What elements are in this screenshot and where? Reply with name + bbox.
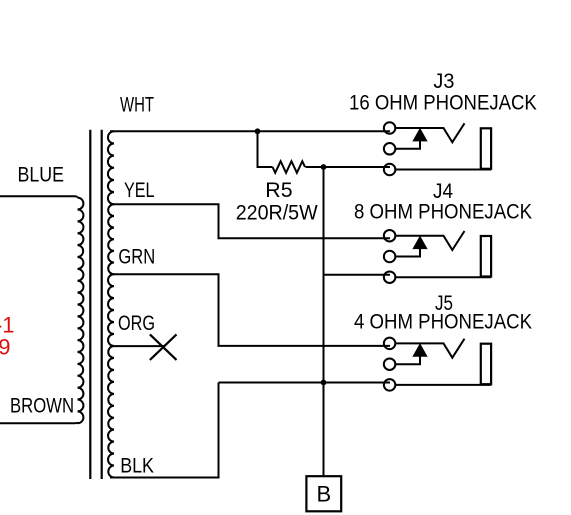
- junction node R5/bus: [321, 164, 327, 170]
- jack J5 terminal circles (tip/switch/sleeve): [384, 338, 396, 391]
- svg-text:B: B: [316, 482, 331, 507]
- jack J3 switch contact wire from middle terminal: [395, 140, 420, 148]
- transformer T primary winding (left coil): [78, 198, 84, 424]
- jack J4 sleeve/body rectangle: [481, 236, 491, 277]
- svg-text:220R/5W: 220R/5W: [236, 202, 318, 225]
- svg-text:R5: R5: [265, 179, 292, 202]
- jack J3 switch arrow (filled): [413, 129, 427, 141]
- svg-text:ORG: ORG: [118, 312, 155, 335]
- no-connect X on ORG tap: [150, 334, 177, 360]
- svg-text:4 OHM PHONEJACK: 4 OHM PHONEJACK: [354, 311, 532, 334]
- wire YEL tap to J4 tip: [110, 204, 390, 238]
- svg-text:BLUE: BLUE: [18, 164, 65, 187]
- svg-text:BROWN: BROWN: [10, 395, 74, 418]
- transformer core line 1: [89, 130, 91, 479]
- wire R5 output to bus: [306, 166, 391, 168]
- terminal B box: [306, 476, 341, 511]
- wire BLK tap up to ground bus row: [110, 383, 219, 478]
- jack J3 sleeve/body rectangle: [481, 128, 491, 169]
- jack J5 sleeve/body rectangle: [481, 344, 491, 385]
- wire ORG tap (unused stub): [110, 345, 165, 347]
- jack J4 terminal circles (tip/switch/sleeve): [384, 230, 396, 283]
- jack J4 tip contact line with V notch: [395, 231, 464, 250]
- transformer secondary winding (right coil, taps WHT/YEL/GRN/ORG/BLK): [108, 131, 114, 477]
- svg-text:J3: J3: [433, 70, 454, 93]
- svg-text:WHT: WHT: [120, 94, 154, 117]
- svg-text:16 OHM PHONEJACK: 16 OHM PHONEJACK: [349, 91, 537, 114]
- wire R5 drop from WHT node: [258, 131, 273, 167]
- jack J3 terminal circles (tip/switch/sleeve): [384, 122, 396, 175]
- wire BLUE primary lead: [0, 196, 78, 198]
- junction node BLK/bus 4-way: [321, 380, 327, 386]
- jack J4 switch arrow (filled): [413, 237, 427, 249]
- jack J5 sleeve wire from bottom terminal: [395, 384, 491, 386]
- jack J5 switch contact wire from middle terminal: [395, 356, 420, 364]
- jack J5 switch arrow (filled): [413, 344, 427, 356]
- wire bus branch to J4 sleeve: [324, 274, 391, 276]
- transformer core line 2: [101, 130, 103, 479]
- resistor R5 zigzag: [273, 161, 306, 173]
- jack J3 tip contact line with V notch: [395, 123, 464, 142]
- wire WHT tap to J3 tip: [110, 130, 390, 132]
- svg-text:YEL: YEL: [124, 179, 155, 202]
- jack J5 tip contact line with V notch: [395, 339, 464, 358]
- wire BROWN primary lead: [0, 422, 78, 423]
- junction node at WHT/R5: [255, 128, 261, 134]
- wire GRN tap to J5 tip: [110, 274, 390, 346]
- svg-text:8 OHM PHONEJACK: 8 OHM PHONEJACK: [354, 200, 532, 223]
- svg-text:GRN: GRN: [118, 246, 155, 269]
- jack J3 sleeve wire from bottom terminal: [395, 169, 491, 171]
- wire BLK row to J5 sleeve: [219, 382, 391, 384]
- ground bus vertical wire: [323, 167, 325, 475]
- svg-text:BLK: BLK: [120, 455, 154, 478]
- jack J4 sleeve wire from bottom terminal: [395, 276, 491, 278]
- jack J4 switch contact wire from middle terminal: [395, 248, 420, 256]
- svg-text:9: 9: [0, 334, 11, 359]
